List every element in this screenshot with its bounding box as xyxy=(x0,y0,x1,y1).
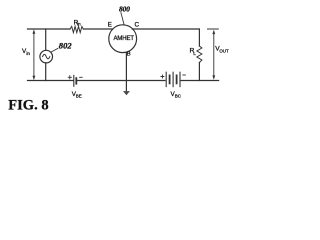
svg-text:B: B xyxy=(127,52,131,58)
svg-text:L: L xyxy=(193,51,196,57)
svg-text:C: C xyxy=(135,22,140,29)
svg-text:BC: BC xyxy=(175,93,182,98)
svg-text:800: 800 xyxy=(119,5,130,14)
svg-text:FIG. 8: FIG. 8 xyxy=(8,98,48,114)
svg-text:in: in xyxy=(77,22,81,27)
svg-text:AMHET: AMHET xyxy=(114,36,135,42)
svg-text:OUT: OUT xyxy=(219,49,229,54)
svg-text:802: 802 xyxy=(59,41,73,51)
svg-text:E: E xyxy=(108,22,112,29)
svg-text:BE: BE xyxy=(76,93,82,98)
svg-text:in: in xyxy=(26,51,30,56)
